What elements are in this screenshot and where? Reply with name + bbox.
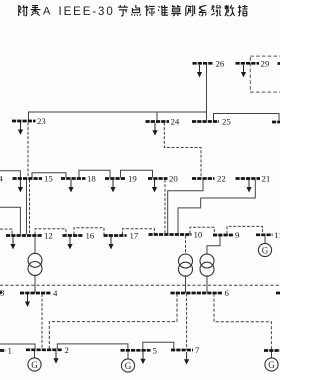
svg-text:2: 2 bbox=[65, 345, 69, 355]
svg-text:1: 1 bbox=[8, 346, 12, 356]
svg-text:19: 19 bbox=[128, 174, 137, 184]
svg-text:14: 14 bbox=[0, 174, 3, 184]
svg-text:22: 22 bbox=[217, 174, 226, 184]
svg-text:5: 5 bbox=[153, 345, 158, 355]
svg-text:9: 9 bbox=[235, 230, 240, 240]
svg-text:17: 17 bbox=[130, 231, 139, 241]
svg-text:11: 11 bbox=[274, 230, 280, 240]
svg-text:15: 15 bbox=[44, 174, 53, 184]
svg-text:29: 29 bbox=[261, 58, 270, 68]
svg-text:7: 7 bbox=[195, 345, 200, 355]
svg-text:6: 6 bbox=[225, 288, 230, 298]
svg-text:24: 24 bbox=[171, 117, 180, 127]
svg-text:21: 21 bbox=[262, 174, 271, 184]
svg-text:16: 16 bbox=[86, 231, 95, 241]
svg-text:23: 23 bbox=[37, 116, 46, 126]
svg-text:3: 3 bbox=[0, 288, 5, 298]
svg-text:12: 12 bbox=[44, 231, 53, 241]
svg-text:4: 4 bbox=[53, 288, 58, 298]
svg-text:18: 18 bbox=[87, 174, 96, 184]
svg-text:IEEE-30: IEEE-30 bbox=[59, 6, 115, 18]
svg-text:20: 20 bbox=[169, 174, 178, 184]
svg-text:A: A bbox=[43, 6, 51, 18]
svg-text:25: 25 bbox=[222, 117, 231, 127]
svg-text:26: 26 bbox=[216, 58, 225, 68]
svg-text:10: 10 bbox=[194, 230, 203, 240]
